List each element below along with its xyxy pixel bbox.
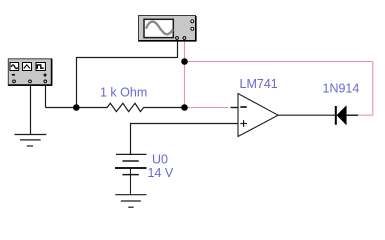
plus mark [44, 74, 47, 76]
button: sine [10, 63, 19, 71]
svg-text:U0: U0 [152, 153, 168, 167]
wire (red): node B to op-amp inverting stub [185, 107, 229, 109]
oscilloscope XSC1 [139, 16, 197, 42]
node B junction dot [181, 104, 188, 111]
node: resistor left junction dot [73, 104, 80, 111]
svg-text:14 V: 14 V [148, 166, 174, 180]
svg-text:1 k Ohm: 1 k Ohm [100, 86, 147, 100]
wire (red): right edge down [372, 62, 374, 116]
wire: to resistor-left node [46, 107, 77, 109]
wire (red): to diode anode [358, 114, 373, 116]
wire (red): node A to top right corner [185, 61, 373, 63]
wire: function generator common to ground [30, 86, 32, 134]
button: triangle [23, 63, 32, 71]
wire: oscilloscope channel A down [177, 42, 179, 59]
wire: vertical down to resistor-left node [76, 58, 78, 109]
svg-text:LM741: LM741 [240, 77, 278, 91]
minus mark [12, 74, 15, 76]
resistor R1 1 k Ohm [76, 103, 185, 111]
battery U0 [115, 154, 147, 194]
wire (red): node A to oscilloscope channel B [184, 42, 186, 62]
wire: horizontal to left at top [76, 57, 177, 59]
button: square [36, 63, 45, 71]
wire: down to battery [130, 124, 132, 155]
svg-text:1N914: 1N914 [323, 82, 360, 96]
wire (red): node B up to node A [184, 62, 186, 108]
diode D1 1N914 [336, 106, 358, 125]
wire: op-amp non-inverting input [130, 123, 238, 125]
function generator XFG1 [8, 59, 52, 86]
wire: function generator + output down [45, 86, 47, 108]
op-amp U1 LM741 [238, 94, 278, 137]
wire: op-amp inverting input stub [231, 107, 238, 109]
node A junction dot [181, 58, 188, 65]
wire: op-amp output to diode [278, 114, 336, 116]
ground (battery) [115, 195, 146, 208]
ground (function generator) [15, 135, 47, 147]
terminals [13, 80, 16, 83]
